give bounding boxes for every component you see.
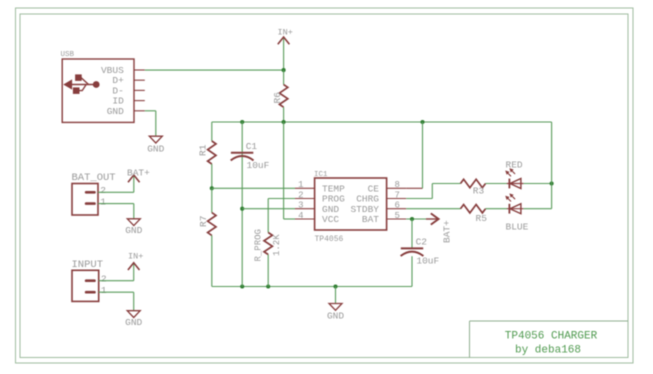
svg-text:R_PROG: R_PROG bbox=[254, 229, 264, 261]
svg-text:1: 1 bbox=[101, 285, 107, 296]
svg-text:BAT+: BAT+ bbox=[441, 220, 452, 243]
svg-text:GND: GND bbox=[125, 225, 142, 236]
svg-text:GND: GND bbox=[125, 317, 142, 328]
svg-text:C2: C2 bbox=[416, 236, 428, 247]
svg-text:USB: USB bbox=[61, 51, 75, 59]
svg-text:2: 2 bbox=[298, 190, 303, 200]
svg-text:5: 5 bbox=[395, 211, 400, 221]
svg-text:8: 8 bbox=[395, 180, 400, 190]
svg-text:VCC: VCC bbox=[322, 214, 339, 225]
svg-text:1.2K: 1.2K bbox=[272, 234, 282, 256]
svg-text:1: 1 bbox=[100, 196, 106, 207]
svg-text:INPUT: INPUT bbox=[72, 259, 104, 271]
svg-text:TP4056 CHARGER: TP4056 CHARGER bbox=[505, 331, 598, 343]
svg-text:BAT_OUT: BAT_OUT bbox=[72, 172, 116, 184]
svg-text:GND: GND bbox=[147, 144, 164, 155]
svg-text:IN+: IN+ bbox=[278, 28, 293, 38]
svg-text:2: 2 bbox=[101, 274, 107, 285]
svg-text:R1: R1 bbox=[198, 144, 209, 156]
svg-text:GND: GND bbox=[107, 106, 124, 117]
svg-text:R7: R7 bbox=[198, 216, 209, 227]
svg-text:RED: RED bbox=[506, 160, 523, 171]
svg-text:R3: R3 bbox=[473, 186, 485, 197]
svg-text:BLUE: BLUE bbox=[506, 222, 529, 233]
svg-text:R6: R6 bbox=[272, 92, 283, 104]
svg-text:2: 2 bbox=[100, 185, 106, 196]
svg-text:C1: C1 bbox=[246, 141, 258, 152]
svg-text:IN+: IN+ bbox=[128, 252, 143, 262]
svg-text:GND: GND bbox=[327, 311, 344, 322]
svg-text:3: 3 bbox=[298, 201, 303, 211]
svg-text:R5: R5 bbox=[476, 213, 488, 224]
svg-text:4: 4 bbox=[298, 211, 303, 221]
svg-text:10uF: 10uF bbox=[416, 255, 439, 266]
svg-text:TP4056: TP4056 bbox=[315, 235, 344, 244]
svg-text:BAT: BAT bbox=[362, 214, 379, 225]
svg-text:by deba168: by deba168 bbox=[515, 345, 581, 357]
svg-text:10uF: 10uF bbox=[247, 160, 270, 171]
svg-text:1: 1 bbox=[298, 180, 303, 190]
svg-text:BAT+: BAT+ bbox=[127, 167, 150, 178]
svg-text:7: 7 bbox=[395, 190, 400, 200]
svg-text:6: 6 bbox=[395, 201, 400, 211]
